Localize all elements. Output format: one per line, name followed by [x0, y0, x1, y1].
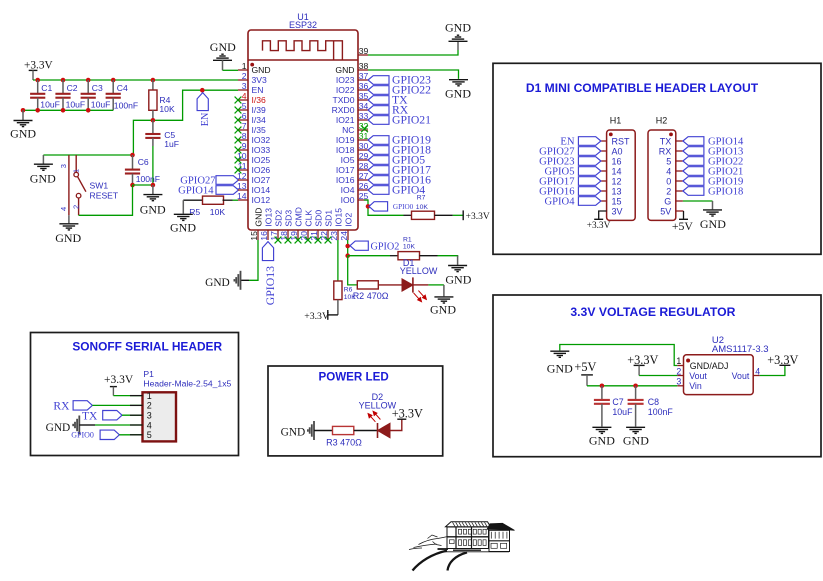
LED D1 YELLOW: [400, 258, 438, 302]
svg-text:IO18: IO18: [336, 145, 355, 155]
svg-text:3: 3: [242, 81, 247, 91]
junction C6 bottom: [130, 183, 135, 188]
wire SW1 bottom to C5/C6 GND node: [79, 185, 133, 215]
junction IO2/R1/R2: [345, 253, 350, 258]
svg-text:24: 24: [339, 231, 349, 241]
capacitor C7 10uF: [601, 386, 603, 400]
wire U1 pin15 to GND: [249, 240, 258, 280]
svg-text:GPIO13: GPIO13: [263, 266, 277, 305]
pin 11 (IO26) of U1, left: [238, 161, 271, 175]
pin RST of H1: [601, 136, 630, 146]
svg-text:10uF: 10uF: [91, 99, 111, 109]
svg-text:1: 1: [242, 61, 247, 71]
ground GND (right of R1): [457, 256, 459, 265]
svg-text:+3.3V: +3.3V: [24, 60, 53, 72]
svg-text:C6: C6: [138, 157, 149, 167]
svg-text:29: 29: [359, 151, 369, 161]
pin 23 (IO15) of U1, bottom: [329, 208, 344, 241]
pin G of H2: [664, 196, 671, 206]
net label GPIO14 (flag at H2): [683, 137, 704, 146]
wire R1 to GND: [438, 256, 458, 257]
net label GPIO2 (flag): [350, 241, 368, 250]
svg-text:10uF: 10uF: [66, 99, 86, 109]
svg-text:I/39: I/39: [252, 105, 267, 115]
pin 38 (GND) of U1, right: [335, 61, 368, 75]
svg-text:IO32: IO32: [252, 135, 271, 145]
svg-text:Vin: Vin: [689, 381, 702, 391]
svg-text:C1: C1: [41, 83, 52, 93]
net label GPIO23 (flag at H1): [578, 157, 601, 166]
svg-text:IO27: IO27: [252, 175, 271, 185]
net label RX (flag at right of U1): [368, 106, 389, 115]
antenna meander of U1: [263, 41, 343, 60]
svg-text:IO13: IO13: [263, 208, 273, 227]
junction GND/C3: [86, 108, 91, 113]
resistor R3 470: [333, 426, 354, 434]
pin 5V of H2: [660, 206, 671, 216]
svg-text:GPIO4: GPIO4: [544, 196, 575, 207]
junction GPIO0 label: [366, 204, 371, 209]
svg-text:4: 4: [59, 207, 68, 211]
pin 16 (IO13) of U1, bottom: [259, 208, 274, 241]
svg-text:10K: 10K: [344, 294, 357, 301]
no-connect X at U1 pin 9: [235, 147, 242, 154]
svg-text:+3.3V: +3.3V: [304, 311, 329, 322]
box 3.3V VOLTAGE REGULATOR: [493, 295, 821, 457]
svg-text:GND: GND: [10, 126, 36, 140]
svg-text:GPIO2: GPIO2: [371, 242, 400, 253]
no-connect X at U1 pin 22: [325, 237, 332, 244]
ground GND (sideways, in POWER LED box): [308, 421, 314, 440]
power flag +3.3V (left of R6): [327, 310, 329, 320]
svg-text:RXD0: RXD0: [332, 105, 355, 115]
svg-text:GND: GND: [430, 303, 456, 317]
wire GND to R3: [314, 430, 333, 432]
wire +5V rail to U2 pin3 (Vin): [587, 385, 677, 387]
junction 3V3/R4: [151, 78, 156, 83]
svg-text:GND: GND: [445, 87, 471, 101]
svg-text:CLK: CLK: [303, 210, 313, 227]
svg-text:16: 16: [259, 231, 269, 241]
svg-text:SD1: SD1: [323, 210, 333, 227]
net label EN (flag): [197, 93, 208, 111]
ESP32 module U1: [248, 30, 358, 230]
svg-text:I/34: I/34: [252, 115, 267, 125]
svg-text:4: 4: [666, 166, 671, 176]
net label GPIO5 (flag at right of U1): [368, 156, 389, 165]
power flag +5V (below H2 5V pin): [676, 210, 684, 212]
svg-text:R2 470Ω: R2 470Ω: [353, 291, 389, 301]
wire C5 bottom to GND node: [152, 146, 154, 185]
svg-text:+3.3V: +3.3V: [466, 212, 490, 222]
svg-text:D1 MINI COMPATIBLE HEADER LAYO: D1 MINI COMPATIBLE HEADER LAYOUT: [526, 81, 759, 95]
connector P1 Header-Male-2.54_1x5: [143, 392, 177, 441]
pin 12 of H1: [601, 176, 622, 186]
pin 16 of H1: [601, 156, 622, 166]
pin 3 of U2: [677, 385, 683, 387]
pin 22 (SD1) of U1, bottom: [319, 210, 334, 241]
power flag +3.3V (below H1 3V pin): [599, 211, 607, 219]
pin 7 (I/35) of U1, left: [238, 121, 266, 135]
wire GND rail under C1-C4: [23, 109, 113, 111]
svg-text:10uF: 10uF: [612, 407, 633, 417]
svg-text:C4: C4: [117, 83, 128, 93]
net label GPIO0 (flag in SONOFF box): [100, 430, 119, 439]
pin 20 (CLK) of U1, bottom: [299, 210, 314, 241]
svg-text:IO22: IO22: [336, 85, 355, 95]
svg-text:GND: GND: [30, 172, 56, 186]
svg-text:5: 5: [666, 156, 671, 166]
no-connect X at U1 pin 21: [315, 237, 322, 244]
svg-text:13: 13: [237, 181, 247, 191]
svg-text:G: G: [664, 196, 671, 206]
wire U2 pin1 (GND/ADJ) to GND: [560, 345, 678, 366]
no-connect X at U1 pin 5: [235, 107, 242, 114]
ground GND (below SW1): [68, 215, 70, 223]
box SONOFF SERIAL HEADER: [31, 333, 239, 456]
pin 1 marker dot of U1: [250, 63, 254, 67]
ground GND (below C7): [592, 427, 611, 433]
svg-text:28: 28: [359, 161, 369, 171]
junction GND/C2: [61, 108, 66, 113]
svg-text:31: 31: [359, 131, 369, 141]
svg-text:R1: R1: [403, 237, 412, 244]
no-connect X at U1 pin 4: [235, 97, 242, 104]
svg-text:3: 3: [676, 377, 681, 387]
pin 26 (IO4) of U1, right: [341, 181, 369, 195]
pin 14 of H1: [601, 166, 622, 176]
capacitor C8 100nF: [635, 386, 637, 400]
svg-text:RST: RST: [612, 136, 631, 146]
pin 39 of U1, right top: [358, 54, 368, 56]
pin 28 (IO17) of U1, right: [336, 161, 369, 175]
svg-text:GPIO21: GPIO21: [392, 113, 431, 126]
junction 3V3/C3: [86, 78, 91, 83]
svg-text:GND: GND: [253, 207, 263, 226]
capacitor C1 10uF: [30, 80, 60, 110]
pin 13 of H1: [601, 186, 622, 196]
svg-text:GPIO14: GPIO14: [178, 185, 214, 196]
junction EN label: [200, 88, 205, 93]
svg-text:1: 1: [676, 356, 681, 366]
svg-text:I/36: I/36: [252, 95, 267, 105]
net label GPIO18 (flag at right of U1): [368, 146, 389, 155]
svg-text:GND: GND: [547, 362, 573, 376]
power flag +3.3V (at U2 pin 4): [779, 364, 790, 366]
resistor R6 10K: [334, 281, 342, 300]
svg-text:R3 470Ω: R3 470Ω: [326, 437, 362, 447]
svg-text:Vout: Vout: [732, 371, 750, 381]
pin 10 (IO25) of U1, left: [237, 151, 270, 165]
capacitor C3 10uF: [81, 80, 111, 110]
wire IO2 node to R1: [348, 255, 390, 257]
svg-text:IO21: IO21: [336, 115, 355, 125]
pin 32 (NC) of U1, right: [342, 121, 368, 135]
svg-text:C7: C7: [612, 397, 623, 407]
net label TX (flag): [103, 411, 122, 420]
svg-text:C8: C8: [648, 397, 659, 407]
svg-text:2: 2: [147, 401, 152, 411]
net label RX (flag): [73, 401, 92, 410]
svg-text:+3.3V: +3.3V: [767, 353, 798, 367]
svg-text:10K: 10K: [403, 244, 416, 251]
wire TX to P1 pin3: [122, 414, 143, 416]
svg-text:GND: GND: [205, 277, 230, 289]
svg-text:2: 2: [71, 205, 80, 209]
net label GPIO21 (flag at right of U1): [368, 116, 389, 125]
pin 27 (IO16) of U1, right: [336, 171, 369, 185]
svg-text:GND: GND: [140, 202, 166, 216]
net label GPIO13 (flag at pin 16): [262, 242, 273, 261]
svg-text:GND: GND: [445, 272, 471, 286]
svg-text:RESET: RESET: [90, 190, 119, 200]
svg-text:EN: EN: [252, 85, 264, 95]
pin 6 (I/34) of U1, left: [238, 111, 266, 125]
svg-text:15: 15: [249, 231, 259, 241]
junction GND rail left end: [21, 108, 26, 113]
pin 15 of H1: [601, 196, 622, 206]
svg-text:2: 2: [666, 186, 671, 196]
net label GPIO18 (flag at H2): [683, 187, 704, 196]
resistor R5 10K: [183, 199, 202, 201]
svg-text:GPIO18: GPIO18: [708, 186, 743, 197]
ground GND (at H2 G pin): [712, 201, 714, 209]
no-connect X at U1 pin 7: [235, 127, 242, 134]
svg-text:9: 9: [242, 141, 247, 151]
svg-text:C2: C2: [67, 83, 78, 93]
ground GND (above pin39 wire, inverted): [457, 42, 459, 51]
pin 3V of H1: [612, 206, 623, 216]
svg-text:POWER LED: POWER LED: [318, 370, 388, 383]
svg-text:IO5: IO5: [341, 155, 355, 165]
pin 4 (I/36) of U1, left: [238, 91, 266, 105]
svg-text:100nF: 100nF: [136, 174, 160, 184]
pin 5 (I/39) of U1, left: [238, 101, 266, 115]
no-connect X at U1 pin 18: [285, 237, 292, 244]
svg-text:39: 39: [359, 46, 369, 56]
svg-text:27: 27: [359, 171, 369, 181]
svg-text:EN: EN: [200, 112, 211, 126]
svg-text:Vout: Vout: [689, 371, 707, 381]
ground GND (left of SW1): [42, 155, 44, 164]
box POWER LED: [268, 366, 443, 456]
wire R7 to +3.3V: [453, 214, 463, 216]
wire D1 to GND: [428, 284, 444, 286]
wire R2 to LED D1: [378, 284, 402, 286]
svg-text:SW1: SW1: [90, 180, 109, 190]
wire U1 pin23 (IO15) down to R6: [337, 240, 339, 281]
wire IO2 node down to R2: [348, 256, 358, 285]
svg-text:34: 34: [359, 101, 369, 111]
svg-text:IO33: IO33: [252, 145, 271, 155]
net label GPIO17 (flag at H1): [578, 177, 601, 186]
svg-text:H2: H2: [656, 116, 668, 126]
svg-text:GND: GND: [445, 20, 471, 34]
svg-text:+3.3V: +3.3V: [104, 374, 134, 386]
svg-text:SD0: SD0: [313, 210, 323, 227]
wire U1 pin1 to GND: [223, 69, 239, 71]
pin 2 (3V3) of U1, left: [238, 71, 267, 85]
svg-text:C3: C3: [92, 83, 103, 93]
pin 34 (RXD0) of U1, right: [332, 101, 369, 115]
svg-text:+5V: +5V: [672, 219, 694, 233]
svg-text:5V: 5V: [660, 206, 671, 216]
net label GPIO5 (flag at H1): [578, 167, 601, 176]
wire GND to P1 pin4: [79, 424, 95, 426]
ground GND (below pin38 wire): [449, 80, 468, 86]
regulator U2 AMS1117-3.3: [684, 355, 754, 395]
resistor R4 10K: [152, 80, 154, 90]
wire U1 pin24 (IO2) down: [347, 240, 349, 256]
svg-text:14: 14: [237, 191, 247, 201]
svg-text:GND: GND: [170, 220, 196, 234]
svg-text:10K: 10K: [416, 204, 429, 211]
wire R3 to LED D2: [354, 430, 378, 432]
net label GPIO22 (flag at right of U1): [368, 86, 389, 95]
pin 1 of U2: [677, 365, 683, 367]
junction 3V3/C4: [111, 78, 116, 83]
svg-text:3V3: 3V3: [252, 75, 268, 85]
wire +3.3V to U2 pin2 (Vout): [639, 375, 677, 377]
pin 3 (EN) of U1, left: [238, 81, 263, 95]
connector H2: [648, 130, 676, 220]
pin RX of H2: [659, 146, 683, 156]
svg-text:5: 5: [242, 101, 247, 111]
junction 3V3/C1: [35, 78, 40, 83]
pin 35 (TXD0) of U1, right: [333, 91, 369, 105]
svg-text:14: 14: [612, 166, 622, 176]
svg-text:8: 8: [242, 131, 247, 141]
pin 17 (SD2) of U1, bottom: [269, 210, 284, 241]
svg-text:RX: RX: [53, 401, 70, 413]
resistor R7 10K: [404, 214, 412, 216]
svg-text:R7: R7: [417, 194, 426, 201]
pin TX of H2: [660, 136, 683, 146]
svg-text:35: 35: [359, 91, 369, 101]
svg-text:R5: R5: [189, 207, 200, 217]
net label GPIO14 (flag at pin 13): [216, 186, 239, 195]
junction C5/C6/GND: [151, 183, 156, 188]
no-connect X at U1 pin 17: [275, 237, 282, 244]
pin 15 (GND) of U1, bottom: [249, 207, 264, 240]
svg-text:IO19: IO19: [336, 135, 355, 145]
svg-text:30: 30: [359, 141, 369, 151]
pin 36 (IO22) of U1, right: [336, 81, 369, 95]
svg-text:Header-Male-2.54_1x5: Header-Male-2.54_1x5: [143, 379, 231, 389]
svg-text:GPIO0: GPIO0: [71, 431, 94, 440]
pin 12 (IO27) of U1, left: [237, 171, 270, 185]
svg-text:1uF: 1uF: [164, 139, 179, 149]
junction 3V3/C2: [61, 78, 66, 83]
pin 5 of H2: [666, 156, 683, 166]
ground GND (right of D1): [443, 285, 445, 296]
svg-text:3.3V VOLTAGE REGULATOR: 3.3V VOLTAGE REGULATOR: [570, 305, 735, 319]
net label GPIO17 (flag at right of U1): [368, 166, 389, 175]
net label GPIO22 (flag at H2): [683, 157, 704, 166]
svg-text:GND: GND: [589, 434, 615, 448]
pin 21 (SD0) of U1, bottom: [309, 210, 324, 241]
capacitor C5 1uF: [152, 120, 154, 134]
no-connect X at U1 pin 20: [305, 237, 312, 244]
svg-text:100nF: 100nF: [648, 407, 674, 417]
svg-text:GND/ADJ: GND/ADJ: [690, 361, 729, 371]
no-connect X at U1 pin 10: [235, 157, 242, 164]
antenna box divider of U1: [248, 59, 358, 61]
ground GND (below C8): [626, 427, 645, 433]
ground GND (below C1 rail): [22, 110, 24, 120]
junction Vin/C7: [600, 384, 605, 389]
wire RX to P1 pin2: [92, 404, 142, 406]
net label GPIO4 (flag at right of U1): [368, 186, 389, 195]
svg-text:5: 5: [147, 430, 152, 440]
net label GPIO19 (flag at right of U1): [368, 136, 389, 145]
svg-text:IO4: IO4: [341, 185, 355, 195]
svg-text:IO23: IO23: [336, 75, 355, 85]
svg-text:IO12: IO12: [252, 195, 271, 205]
switch SW1 RESET: [69, 155, 119, 215]
no-connect X at U1 pin 11: [235, 167, 242, 174]
pin 8 (IO32) of U1, left: [238, 131, 270, 145]
net label GPIO0 (flag at pin 25): [369, 202, 388, 211]
no-connect X at U1 pin 32 (NC): [361, 125, 368, 132]
svg-text:GND: GND: [252, 65, 271, 75]
svg-text:ESP32: ESP32: [289, 20, 317, 30]
pin 4 of U2: [753, 375, 760, 377]
svg-text:A0: A0: [612, 146, 623, 156]
net label TX (flag at right of U1): [368, 96, 389, 105]
svg-text:IO17: IO17: [336, 165, 355, 175]
svg-text:1: 1: [71, 169, 80, 173]
svg-text:3V: 3V: [612, 206, 623, 216]
svg-text:3: 3: [147, 411, 152, 421]
ground GND (top-left in regulator box): [550, 351, 569, 357]
svg-text:15: 15: [612, 196, 622, 206]
svg-text:12: 12: [612, 176, 622, 186]
svg-text:SD2: SD2: [273, 210, 283, 227]
wire EN net (pin3 to R4/C5/C6 node): [133, 90, 238, 155]
pin 2 of H2: [666, 186, 683, 196]
svg-text:16: 16: [612, 156, 622, 166]
pin 9 (IO33) of U1, left: [238, 141, 270, 155]
wire reset top (GND to C6): [43, 154, 132, 156]
svg-text:IO25: IO25: [252, 155, 271, 165]
wire 3V3 rail to ESP32 pin 2: [33, 79, 238, 81]
connector H1: [607, 130, 636, 220]
pin 25 (IO0) of U1, right: [341, 191, 369, 205]
svg-text:+5V: +5V: [574, 360, 596, 374]
pin 2 of U2: [677, 375, 683, 377]
resistor R2 470: [357, 281, 378, 289]
svg-text:1: 1: [147, 391, 152, 401]
junction GND/C1: [35, 108, 40, 113]
svg-text:GND: GND: [55, 231, 81, 245]
resistor R1 10K: [390, 255, 398, 257]
svg-text:10K: 10K: [210, 207, 226, 217]
svg-text:IO2: IO2: [343, 213, 353, 227]
svg-text:0: 0: [666, 176, 671, 186]
box D1 MINI COMPATIBLE HEADER LAYOUT: [493, 63, 821, 254]
pin 24 (IO2) of U1, bottom: [339, 213, 354, 241]
net label GPIO23 (flag at right of U1): [368, 76, 389, 85]
pin 31 (IO19) of U1, right: [336, 131, 369, 145]
svg-text:10K: 10K: [159, 104, 175, 114]
net label GPIO21 (flag at H2): [683, 167, 704, 176]
wire U1 pin25 (IO0) down to R7: [364, 200, 404, 215]
LED D2 YELLOW: [359, 392, 402, 438]
pin 1 (GND) of U1, left: [238, 61, 271, 75]
svg-text:GND: GND: [700, 217, 726, 231]
pin 19 (CMD) of U1, bottom: [289, 207, 304, 241]
